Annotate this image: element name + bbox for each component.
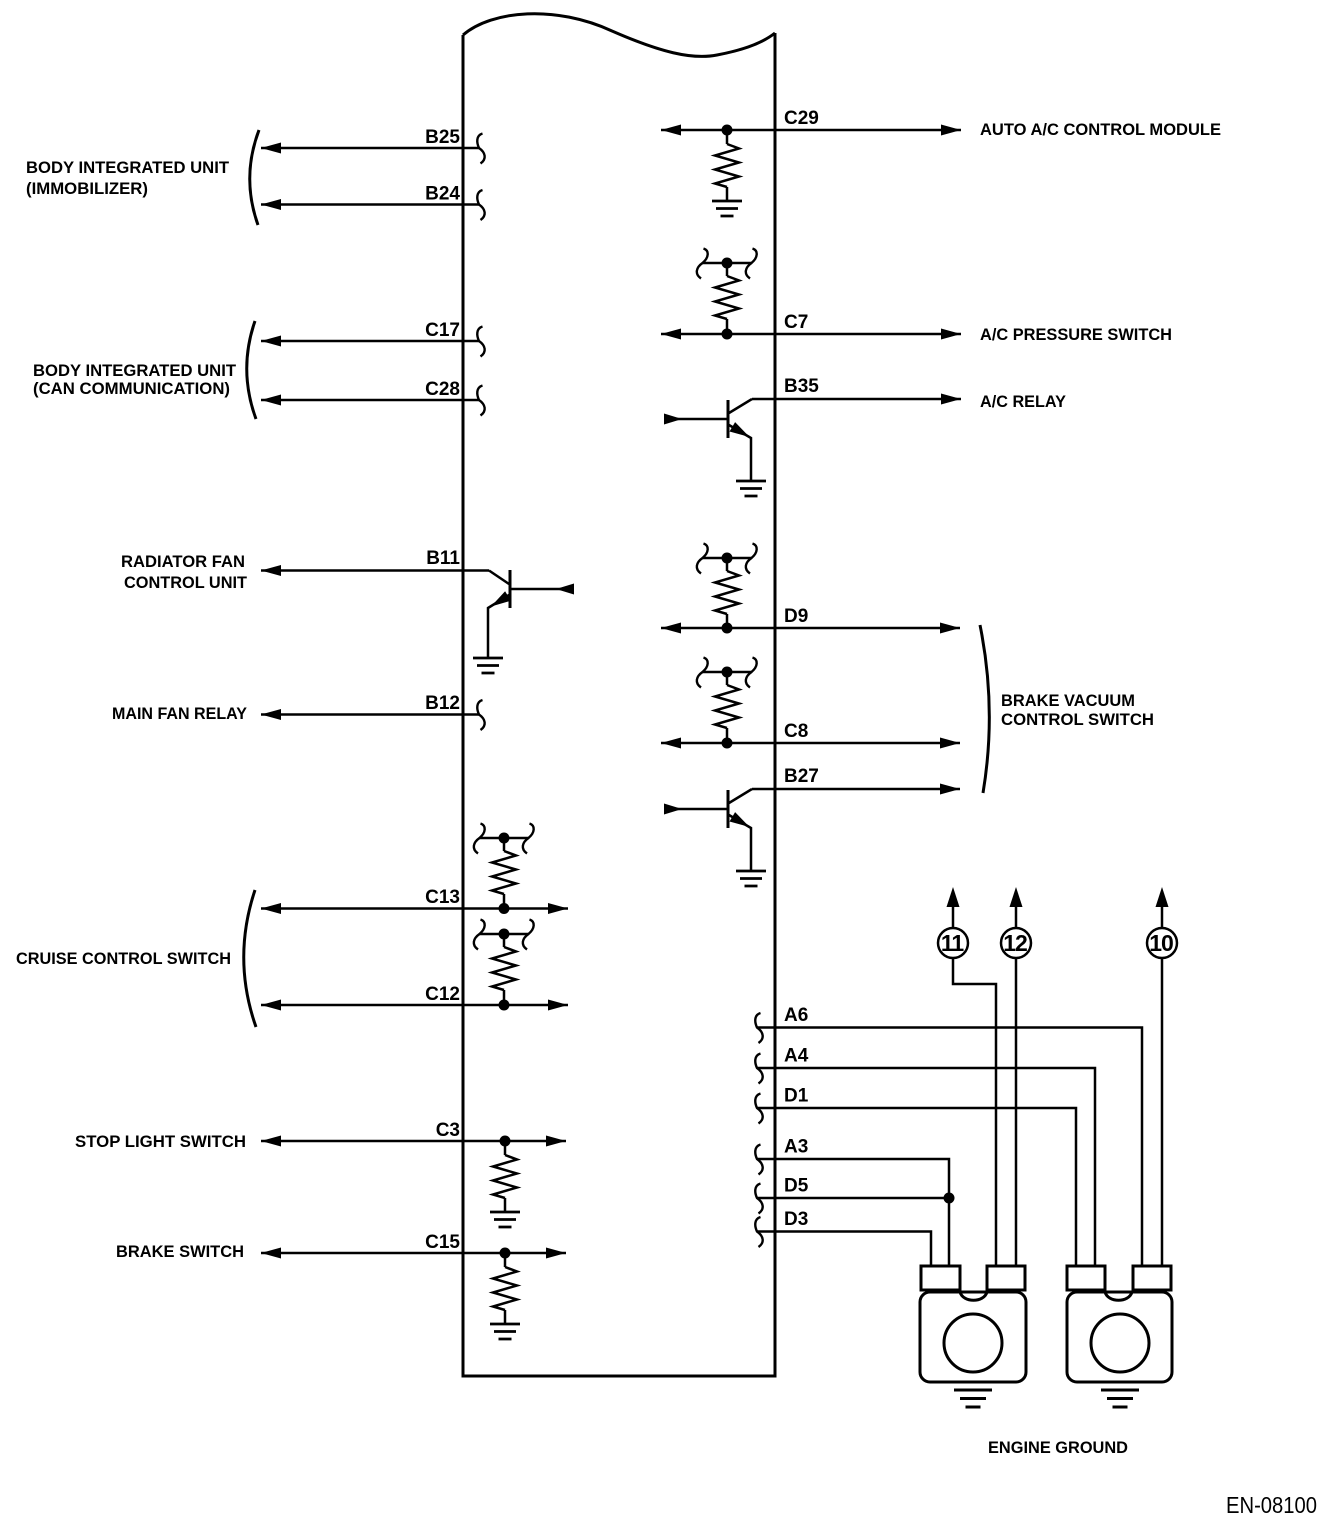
- wire pin C8: [661, 738, 960, 749]
- svg-text:B11: B11: [426, 548, 460, 569]
- ground symbol under lug 2: [1101, 1390, 1139, 1407]
- ground at Q1 emitter: [473, 658, 503, 673]
- ground at Q2 emitter: [736, 481, 766, 496]
- svg-text:12: 12: [1003, 930, 1027, 956]
- wire pin B35: [752, 394, 961, 405]
- svg-text:BODY INTEGRATED UNIT: BODY INTEGRATED UNIT: [33, 362, 236, 380]
- node junction C3: [500, 1136, 511, 1147]
- brace for brake vacuum switch pins: [980, 625, 989, 793]
- svg-text:CRUISE CONTROL SWITCH: CRUISE CONTROL SWITCH: [16, 950, 231, 968]
- wire pin B24: [261, 190, 485, 220]
- svg-text:B24: B24: [425, 184, 460, 205]
- transistor Q2 internal driver at B35: [664, 399, 752, 480]
- svg-text:11: 11: [941, 930, 965, 956]
- wire pin B27: [752, 784, 960, 795]
- svg-text:RADIATOR FAN: RADIATOR FAN: [121, 553, 245, 571]
- svg-text:C17: C17: [425, 320, 460, 341]
- svg-text:AUTO A/C CONTROL MODULE: AUTO A/C CONTROL MODULE: [980, 121, 1221, 139]
- svg-text:BRAKE VACUUM: BRAKE VACUUM: [1001, 692, 1135, 710]
- ground lug 2 body: [1067, 1292, 1172, 1382]
- sensor contact with pull-up above C8: [697, 658, 757, 744]
- wire pin D1: [755, 1094, 1076, 1267]
- svg-text:D9: D9: [784, 606, 808, 627]
- svg-text:CONTROL UNIT: CONTROL UNIT: [124, 574, 247, 592]
- svg-text:D3: D3: [784, 1209, 808, 1230]
- ground lug 2 terminal tab C: [1067, 1266, 1105, 1290]
- svg-text:CONTROL SWITCH: CONTROL SWITCH: [1001, 711, 1154, 729]
- ground lug 2 terminal tab D: [1133, 1266, 1171, 1290]
- svg-text:C7: C7: [784, 312, 808, 333]
- svg-text:C13: C13: [425, 887, 460, 908]
- svg-text:EN-08100: EN-08100: [1226, 1492, 1317, 1518]
- wire from node 12 to ground tab: [1015, 958, 1018, 1266]
- ground lug 1 terminal tab A: [921, 1266, 960, 1290]
- sensor contact with pull-up above C7: [697, 249, 757, 335]
- brace for CAN pins: [247, 321, 256, 419]
- svg-text:ENGINE GROUND: ENGINE GROUND: [988, 1439, 1128, 1457]
- node junction D9: [722, 623, 733, 634]
- node BODY INTEGRATED UNIT (CAN COMMUNICATION) label: [33, 362, 236, 398]
- wire pin C17: [261, 327, 485, 357]
- node junction C8: [722, 738, 733, 749]
- node junction C15: [500, 1248, 511, 1259]
- svg-text:C12: C12: [425, 984, 460, 1005]
- transistor Q1 internal driver at B11: [488, 570, 574, 657]
- svg-text:A/C RELAY: A/C RELAY: [980, 393, 1066, 411]
- svg-text:C28: C28: [425, 379, 460, 400]
- ground symbol under lug 1: [954, 1390, 992, 1407]
- ground lug 1 body: [920, 1292, 1026, 1382]
- node junction C12: [499, 1000, 510, 1011]
- resistor pull-down at C3 with ground: [490, 1146, 520, 1227]
- node 11 off-page connector: [938, 887, 968, 958]
- resistor pull-down at C15 with ground: [490, 1258, 520, 1339]
- wire pin C15: [261, 1248, 566, 1259]
- node junction C13: [499, 903, 510, 914]
- wire pin C13: [261, 903, 568, 914]
- svg-text:(IMMOBILIZER): (IMMOBILIZER): [26, 180, 148, 198]
- sensor contact with pull-up above D9: [697, 544, 757, 629]
- sensor contact with pull-up above C12: [474, 920, 534, 1006]
- wire pin C29: [661, 125, 961, 136]
- ground lug 1 terminal tab B: [987, 1266, 1025, 1290]
- brace for immobilizer pins: [250, 130, 259, 225]
- svg-text:D1: D1: [784, 1086, 809, 1107]
- wire pin C28: [261, 386, 485, 416]
- node RADIATOR FAN CONTROL UNIT label: [121, 553, 247, 592]
- node junction D5 joins A3 wire: [944, 1193, 955, 1204]
- svg-text:B25: B25: [425, 127, 460, 148]
- node BODY INTEGRATED UNIT (IMMOBILIZER) label: [26, 159, 229, 198]
- node junction C7: [722, 329, 733, 340]
- node 12 off-page connector: [1001, 887, 1031, 958]
- svg-text:(CAN COMMUNICATION): (CAN COMMUNICATION): [33, 380, 230, 398]
- svg-text:MAIN FAN RELAY: MAIN FAN RELAY: [112, 705, 247, 723]
- svg-text:C8: C8: [784, 721, 808, 742]
- resistor pull-down at C29 with ground: [712, 135, 742, 216]
- wire pin D3: [755, 1217, 931, 1266]
- svg-text:D5: D5: [784, 1176, 809, 1197]
- wire pin D5: [755, 1184, 949, 1214]
- svg-text:B27: B27: [784, 766, 819, 787]
- svg-text:C15: C15: [425, 1232, 460, 1253]
- wire from node 10 to ground tab: [1161, 958, 1164, 1266]
- brace for cruise control pins: [244, 890, 256, 1027]
- svg-text:A4: A4: [784, 1046, 809, 1067]
- node junction C29: [722, 125, 733, 136]
- wire pin B25: [261, 134, 485, 164]
- wire pin B12: [261, 700, 485, 730]
- wire pin A6: [755, 1013, 1142, 1266]
- transistor Q3 internal driver at B27: [664, 789, 752, 870]
- sensor contact with pull-up above C13: [474, 824, 534, 909]
- svg-text:BRAKE SWITCH: BRAKE SWITCH: [116, 1243, 244, 1261]
- wire pin B11: [261, 565, 489, 576]
- svg-text:B12: B12: [425, 693, 460, 714]
- wire pin A4: [755, 1054, 1095, 1267]
- svg-text:BODY INTEGRATED UNIT: BODY INTEGRATED UNIT: [26, 159, 229, 177]
- wire pin C7: [661, 329, 961, 340]
- svg-text:A/C PRESSURE SWITCH: A/C PRESSURE SWITCH: [980, 326, 1172, 344]
- svg-text:C3: C3: [436, 1120, 460, 1141]
- wire pin D9: [661, 623, 960, 634]
- ground at Q3 emitter: [736, 871, 766, 886]
- wire pin A3: [755, 1145, 949, 1267]
- node 10 off-page connector: [1147, 887, 1177, 958]
- svg-text:C29: C29: [784, 108, 819, 129]
- wire from node 11 to ground tab: [953, 958, 996, 1266]
- ECU box outline: [463, 14, 775, 1376]
- node BRAKE VACUUM CONTROL SWITCH label: [1001, 692, 1154, 729]
- wire pin C3: [261, 1136, 566, 1147]
- svg-text:10: 10: [1149, 930, 1173, 956]
- svg-text:A3: A3: [784, 1137, 808, 1158]
- wire pin C12: [261, 1000, 568, 1011]
- svg-text:B35: B35: [784, 376, 819, 397]
- svg-text:STOP LIGHT SWITCH: STOP LIGHT SWITCH: [75, 1133, 246, 1151]
- svg-text:A6: A6: [784, 1005, 808, 1026]
